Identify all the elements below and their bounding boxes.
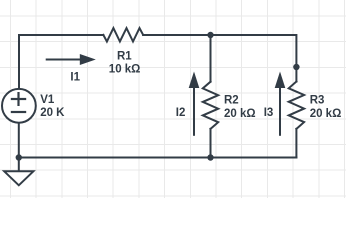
- current arrow I3: [275, 72, 286, 136]
- wire top-right segment: [143, 35, 296, 82]
- node at R3 branch: [293, 64, 299, 70]
- wire R3 bottom branch: [295, 129, 297, 158]
- wire top-left segment: [19, 35, 103, 89]
- current arrow I2: [189, 72, 200, 136]
- ground: [4, 157, 33, 185]
- resistor R2: [203, 82, 218, 129]
- wire R2 top branch: [210, 35, 212, 82]
- svg-text:I3: I3: [264, 107, 274, 119]
- svg-text:20 kΩ: 20 kΩ: [310, 108, 342, 120]
- wire V1 bottom to ground node: [18, 123, 20, 158]
- voltage source V1: [2, 89, 36, 123]
- node at ground junction: [16, 154, 22, 160]
- svg-text:R2: R2: [224, 94, 239, 106]
- svg-text:R1: R1: [117, 51, 132, 63]
- wire R2 bottom branch: [210, 129, 212, 158]
- svg-text:10 kΩ: 10 kΩ: [109, 63, 141, 75]
- current arrow I1: [46, 54, 96, 65]
- svg-text:20 K: 20 K: [40, 107, 65, 119]
- node at R2 top: [207, 32, 213, 38]
- resistor R3: [289, 82, 304, 129]
- svg-text:20 kΩ: 20 kΩ: [224, 108, 256, 120]
- node at R2 bottom: [207, 154, 213, 160]
- svg-text:I2: I2: [176, 107, 186, 119]
- svg-text:I1: I1: [70, 72, 80, 84]
- svg-text:V1: V1: [40, 94, 55, 106]
- resistor R1: [103, 28, 143, 41]
- wire bottom bus: [19, 157, 297, 159]
- svg-text:R3: R3: [310, 94, 325, 106]
